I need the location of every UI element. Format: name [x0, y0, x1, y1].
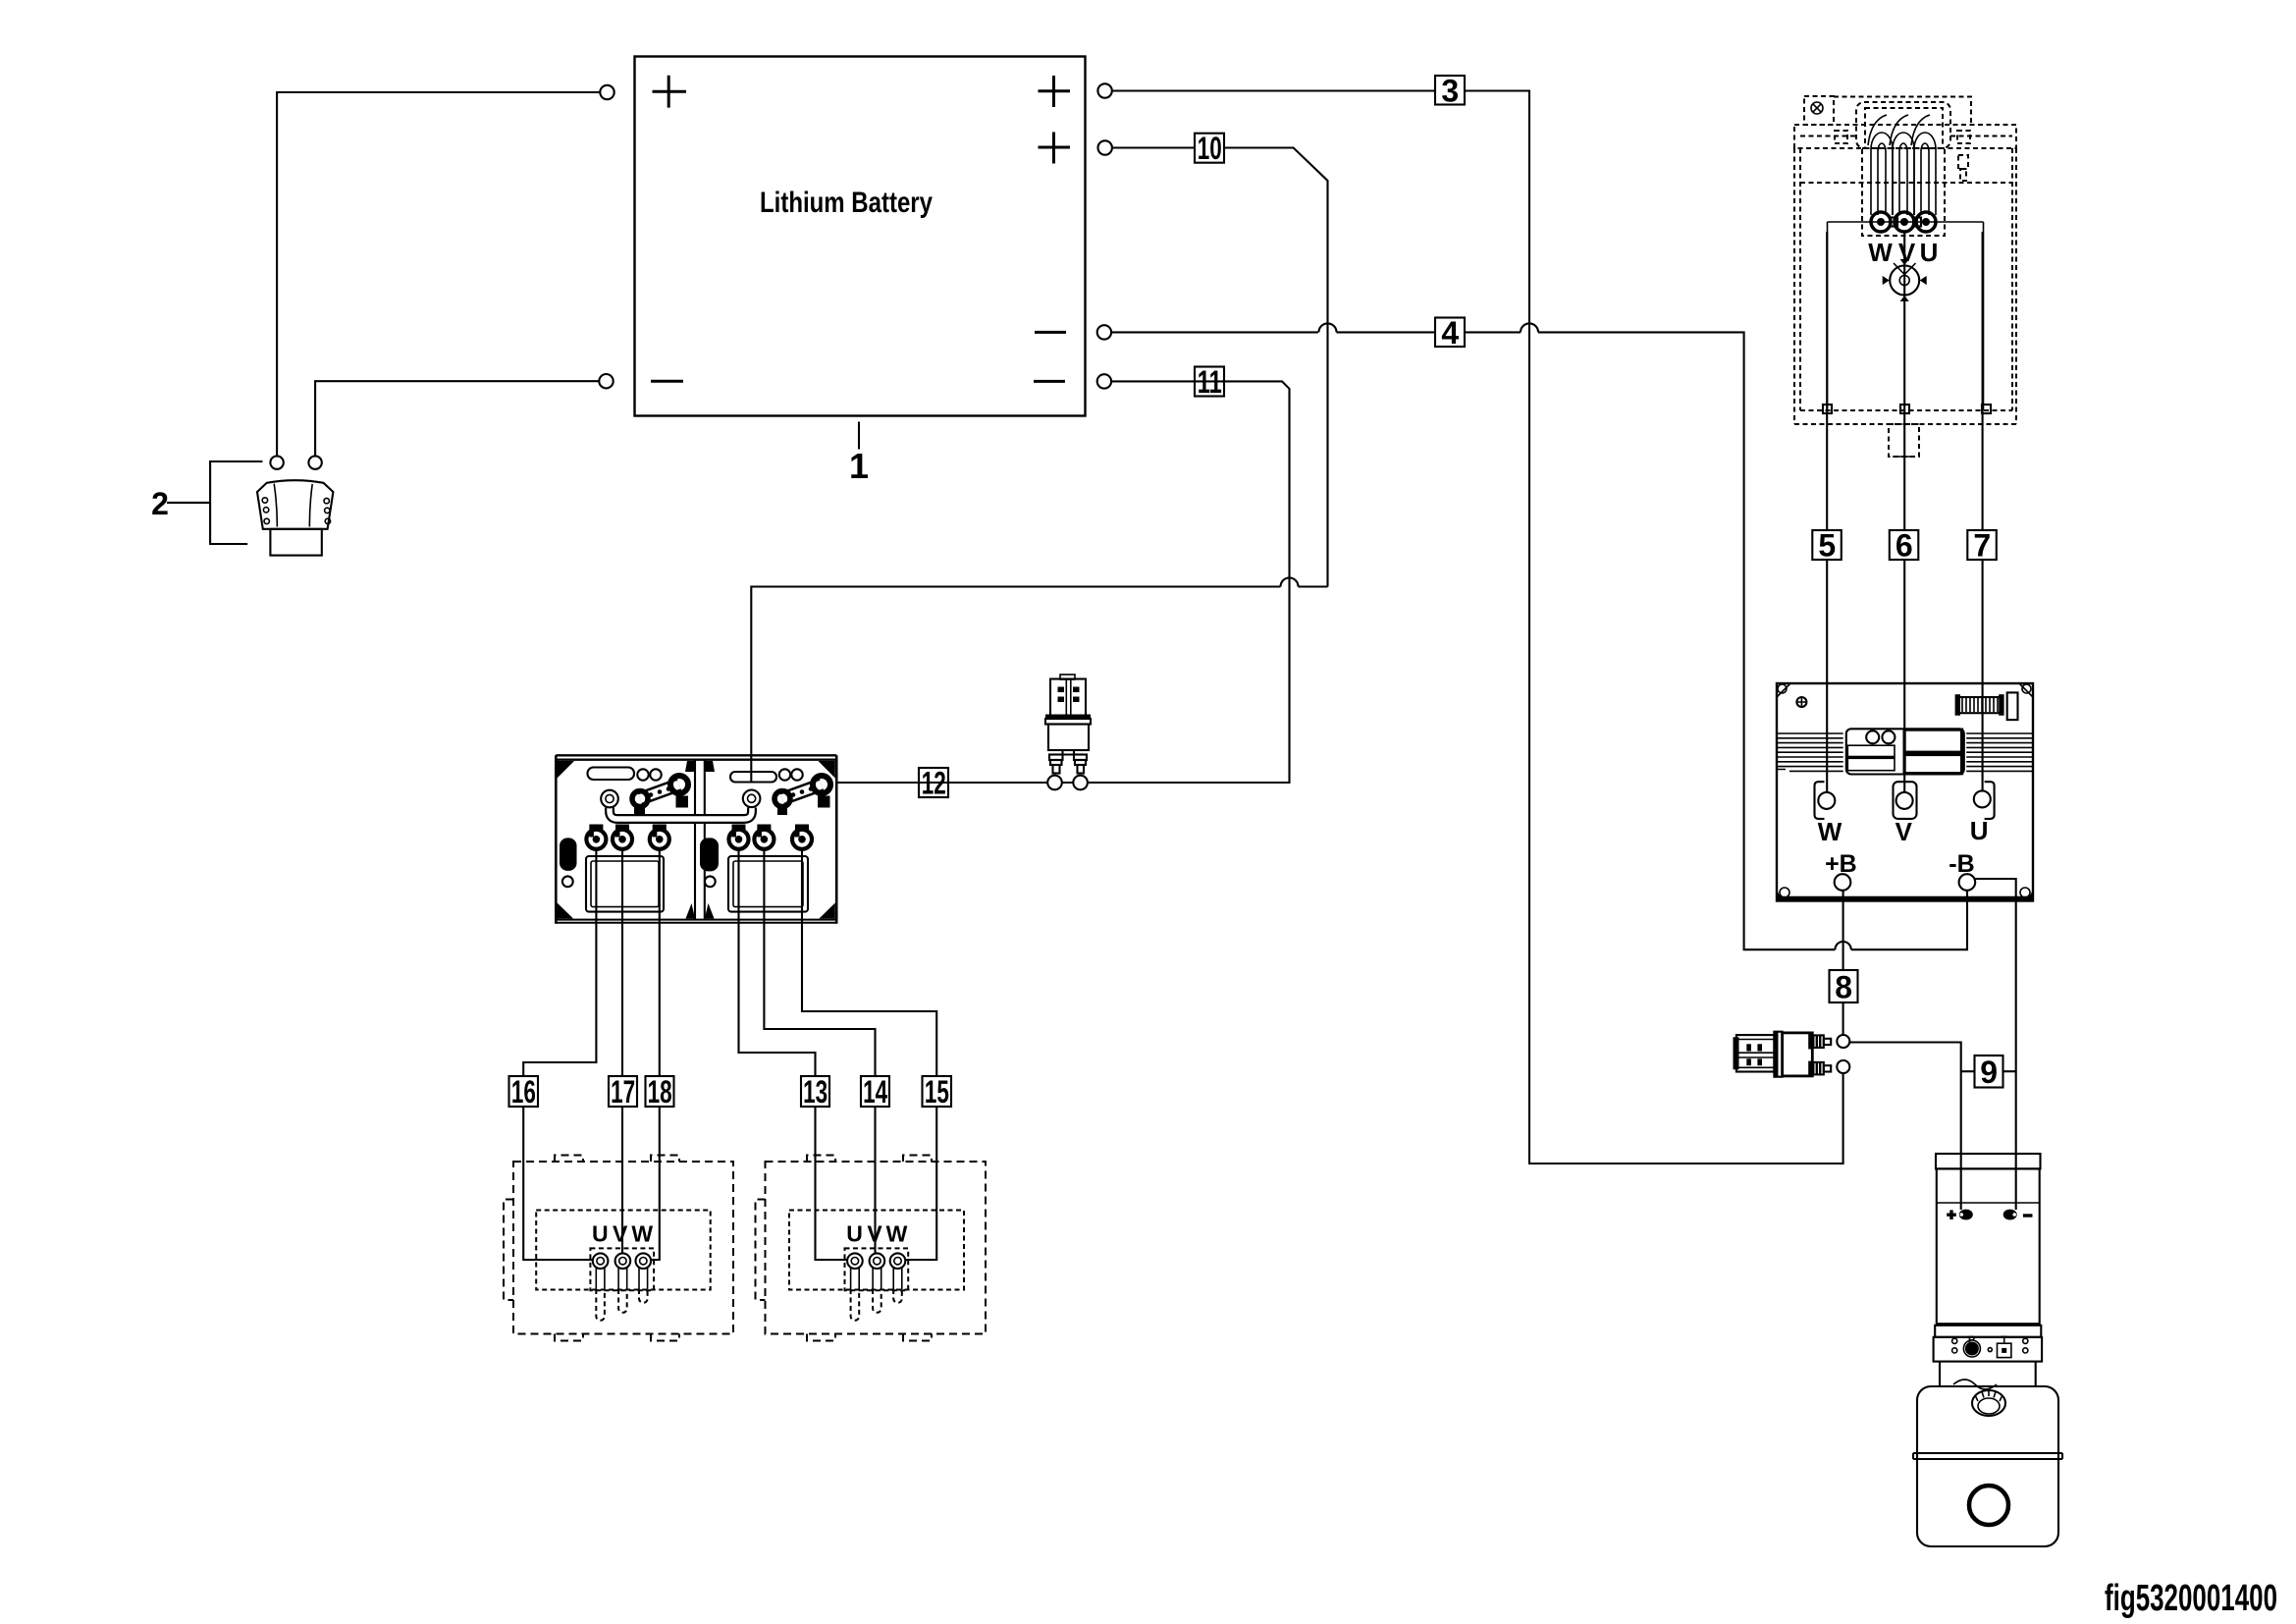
- svg-text:V: V: [867, 1221, 882, 1247]
- contactor right half small circle: [705, 876, 716, 887]
- charger plug terminal circle B: [308, 456, 321, 468]
- contactor left half top slot: [588, 768, 635, 781]
- charger plug connector 2: [257, 480, 333, 555]
- svg-text:14: 14: [863, 1074, 887, 1110]
- svg-text:W: W: [631, 1221, 653, 1247]
- label 13 box: [801, 1074, 829, 1110]
- traction motor (top right, dashed): [1794, 96, 2016, 424]
- battery minus terminal mark right 1: [1035, 331, 1066, 334]
- svg-text:W: W: [886, 1221, 908, 1247]
- controller +B terminal circle: [1835, 874, 1851, 891]
- pump plus terminal: [1959, 1210, 1973, 1220]
- controller terminal V: [1894, 782, 1917, 819]
- battery leader line: [858, 422, 860, 450]
- wire 10 hop over wire 11: [1281, 578, 1299, 587]
- svg-text:U: U: [592, 1221, 609, 1247]
- svg-text:2: 2: [151, 486, 169, 521]
- battery terminal circle right plus 1 (wire 3): [1097, 83, 1111, 97]
- svg-text:8: 8: [1835, 970, 1852, 1005]
- contactor assembly corner marks: [558, 761, 835, 919]
- battery minus terminal mark left: [651, 380, 683, 383]
- charger plug terminal circle A: [270, 456, 283, 468]
- traction motor terminal links: [1890, 218, 1921, 227]
- wire 13 contactor to right motor U: [739, 851, 847, 1261]
- label 14 box: [861, 1074, 889, 1110]
- contactor bolt terminal 14: [754, 825, 774, 849]
- contactor bolt terminal 13: [729, 825, 749, 849]
- label 7 box: [1967, 527, 1997, 563]
- wire 8 controller +B to solenoid: [1842, 891, 1844, 1036]
- svg-text:9: 9: [1980, 1055, 1998, 1090]
- breaker terminal circle right: [1073, 776, 1088, 790]
- contactor busbar staple: [610, 808, 752, 820]
- battery plus terminal mark right 2: [1039, 133, 1071, 164]
- right motor terminal enclosure (dashed): [845, 1248, 909, 1290]
- controller terminal W: [1815, 782, 1836, 819]
- battery terminal circle right minus 1 (wire 4): [1097, 325, 1111, 339]
- solenoid terminal circle upper: [1837, 1035, 1849, 1048]
- wire 4 battery minus to controller -B: [1111, 332, 1967, 949]
- left motor terminal enclosure (dashed): [590, 1248, 654, 1290]
- contactor diagonal link left: [632, 776, 688, 815]
- pump plus sign: [1947, 1210, 1956, 1219]
- label 11 box: [1195, 364, 1224, 400]
- contactor assembly divider: [695, 760, 705, 920]
- label 9 box: [1975, 1055, 2003, 1090]
- wire 4 hop over wire 3: [1521, 323, 1538, 332]
- svg-text:V: V: [1898, 238, 1916, 267]
- label 5 box: [1812, 527, 1842, 563]
- controller center fuse block: [1846, 729, 1964, 774]
- svg-text:7: 7: [1973, 527, 1991, 563]
- wire 15 contactor to right motor W: [802, 851, 936, 1261]
- contactor right relay block: [728, 856, 808, 912]
- left motor terminal V: [615, 1253, 631, 1269]
- left motor terminal U: [593, 1253, 609, 1269]
- wire 16 contactor to left motor U: [523, 851, 596, 1261]
- svg-text:U: U: [846, 1221, 863, 1247]
- svg-text:U: U: [1920, 238, 1939, 267]
- contactor busbar lug left: [601, 790, 618, 808]
- label 16 box: [509, 1074, 539, 1110]
- contactor right half black blob: [700, 838, 719, 871]
- contactor right half top circles: [779, 769, 803, 780]
- right motor terminal pins: [851, 1269, 902, 1321]
- wire 3 battery plus to controller branch: [1112, 91, 1843, 1164]
- label 17 box: [609, 1074, 637, 1110]
- controller signal connector (top right): [1955, 692, 2018, 720]
- svg-text:V: V: [613, 1221, 628, 1247]
- wire 11 battery minus 2 to breaker: [1088, 381, 1290, 783]
- label 2 bracket: [167, 461, 262, 544]
- battery terminal circle right plus 2 (wire 10): [1098, 140, 1112, 154]
- controller mounting screw: [1796, 697, 1807, 708]
- wire solenoid to pump plus: [1849, 1043, 1960, 1211]
- traction motor inner solid frame: [1828, 222, 1984, 410]
- label 10 box: [1195, 131, 1224, 166]
- battery plus terminal mark left: [653, 76, 687, 108]
- breaker terminal circle left: [1047, 776, 1062, 790]
- contactor left half black blob: [560, 838, 577, 871]
- contactor diagonal link right: [774, 776, 830, 815]
- battery terminal circle left plus: [600, 85, 614, 99]
- wire 18 contactor to left motor W: [652, 851, 660, 1261]
- right motor terminal V: [870, 1253, 885, 1269]
- motor controller box: [1777, 683, 2033, 901]
- right drive motor (dashed) outline: [756, 1156, 987, 1341]
- traction motor terminal bolt U: [1916, 212, 1936, 232]
- contactor bolt terminal 18: [650, 825, 669, 849]
- wire charger negative: [315, 381, 599, 456]
- wire 7 motor U to controller U: [1982, 232, 1984, 791]
- svg-text:-B: -B: [1949, 850, 1974, 878]
- svg-text:11: 11: [1198, 364, 1222, 400]
- pump solenoid contactor: [1734, 1032, 1832, 1077]
- svg-text:U: U: [1970, 816, 1989, 845]
- traction motor cable loops: [1868, 115, 1936, 215]
- label 3 box: [1435, 74, 1465, 109]
- solenoid terminal circle lower: [1837, 1060, 1849, 1073]
- svg-text:T: T: [2001, 1334, 2007, 1346]
- svg-text:P: P: [1968, 1334, 1975, 1346]
- wire 4 hop over wire 10: [1319, 323, 1337, 332]
- svg-text:W: W: [1818, 817, 1842, 846]
- left motor terminal pins: [596, 1269, 647, 1321]
- contactor bolt terminal 15: [792, 825, 812, 849]
- contactor left relay block: [586, 856, 664, 912]
- wire 9 link: [1961, 1070, 2016, 1072]
- svg-text:10: 10: [1198, 131, 1222, 166]
- left motor terminal W: [636, 1253, 652, 1269]
- label 4 box: [1435, 315, 1465, 351]
- contactor left half small circle: [562, 876, 573, 887]
- pump minus sign: [2023, 1214, 2033, 1217]
- traction motor bottom squares: [1823, 405, 1991, 413]
- wire 12 breaker to contactor assembly: [836, 782, 1073, 784]
- contactor left half top circles: [637, 769, 661, 780]
- label 15 box: [923, 1074, 952, 1110]
- svg-text:6: 6: [1896, 527, 1913, 563]
- wire 6 motor V to controller V: [1903, 232, 1905, 792]
- left drive motor (dashed) outline: [504, 1156, 733, 1341]
- label 18 box: [646, 1074, 674, 1110]
- controller corner details: [1777, 683, 2033, 900]
- svg-text:15: 15: [925, 1074, 949, 1110]
- controller heatsink fins right: [1966, 733, 2032, 771]
- contactor bolt terminal 17: [613, 825, 632, 849]
- svg-text:fig5320001400: fig5320001400: [2105, 1578, 2277, 1619]
- svg-text:1: 1: [849, 446, 869, 486]
- svg-text:3: 3: [1441, 74, 1459, 109]
- traction motor shaft: [1889, 424, 1919, 457]
- wire 4 hop over wire 8: [1835, 942, 1850, 949]
- right motor terminal U: [847, 1253, 863, 1269]
- svg-text:16: 16: [511, 1074, 536, 1110]
- contactor right half top slot: [730, 772, 776, 783]
- right motor terminal W: [890, 1253, 906, 1269]
- left motor terminal box (dashed): [536, 1211, 711, 1290]
- svg-text:W: W: [1868, 238, 1893, 267]
- battery terminal circle left minus: [599, 374, 613, 388]
- wire 10 battery plus 2 to contactor assembly: [751, 148, 1327, 784]
- label 8 box: [1830, 970, 1858, 1005]
- hydraulic pump unit: [1913, 1154, 2062, 1546]
- right motor terminal box (dashed): [789, 1211, 964, 1290]
- pump minus terminal: [2003, 1210, 2017, 1220]
- contactor bolt terminal 16: [586, 825, 606, 849]
- traction motor terminal bolt V: [1895, 212, 1914, 232]
- contactor busbar lug center (wire 10 connection): [743, 790, 761, 808]
- battery minus terminal mark right 2: [1034, 380, 1065, 383]
- controller terminal U: [1974, 782, 1995, 819]
- battery terminal circle right minus 2 (wire 11): [1097, 374, 1111, 388]
- battery 1 box: [635, 57, 1086, 416]
- contactor assembly (dual) frame: [556, 755, 836, 924]
- label 6 box: [1890, 527, 1919, 563]
- wire charger positive: [277, 92, 600, 456]
- svg-text:18: 18: [648, 1074, 672, 1110]
- traction motor rotation symbol: [1883, 259, 1927, 301]
- svg-text:V: V: [1896, 817, 1913, 846]
- svg-text:17: 17: [611, 1074, 635, 1110]
- svg-text:5: 5: [1818, 527, 1836, 563]
- wire 14 contactor to right motor V: [764, 851, 875, 1255]
- battery plus terminal mark right 1: [1039, 76, 1071, 107]
- circuit breaker: [1045, 675, 1091, 774]
- svg-text:4: 4: [1441, 315, 1459, 351]
- svg-text:13: 13: [803, 1074, 828, 1110]
- wire controller -B to pump minus: [1975, 879, 2016, 1210]
- svg-text:Lithium Battery: Lithium Battery: [760, 187, 933, 219]
- traction motor terminal bolt W: [1871, 212, 1891, 232]
- wire 5 motor W to controller W: [1826, 232, 1828, 792]
- wire 17 contactor to left motor V: [621, 851, 623, 1255]
- label 12 box: [919, 765, 948, 800]
- controller heatsink fins left: [1778, 733, 1843, 771]
- svg-text:12: 12: [922, 765, 946, 800]
- controller -B terminal circle: [1959, 874, 1976, 891]
